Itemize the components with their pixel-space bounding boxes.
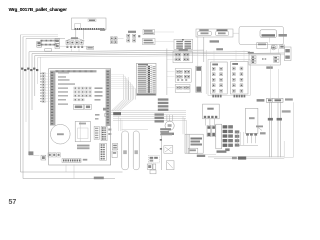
wire B1 link [155, 31, 175, 33]
relay K3 lower boxes [147, 164, 152, 169]
feed tick 2 [277, 118, 282, 121]
external connector column X3 [42, 73, 45, 75]
power module side text [260, 132, 266, 134]
label box X10 [37, 42, 42, 48]
ground link [284, 156, 293, 158]
wire label bl [28, 151, 33, 155]
heatsink block [75, 121, 90, 141]
contact cluster K?b [127, 34, 130, 37]
power module [245, 108, 258, 133]
ground text 2 [232, 157, 237, 160]
wire cap return [238, 144, 258, 146]
signal grid box [174, 39, 193, 49]
power supply terminal row [75, 28, 76, 30]
wire transistor feeds [166, 115, 168, 121]
internal connector box [94, 126, 99, 139]
wire tick labels [21, 68, 23, 70]
bottom text [77, 145, 90, 147]
drive label right [279, 34, 287, 37]
pin stub 2 [83, 30, 85, 40]
relay box K1 [211, 62, 228, 94]
wire through breaker [60, 45, 90, 47]
breaker stub down a [71, 49, 73, 53]
relay output cells col2 [235, 130, 240, 133]
breaker Q1 label [71, 37, 78, 39]
net label row 1 [40, 40, 59, 42]
wire B2 link [155, 41, 174, 43]
wire mid vertical [166, 49, 168, 96]
wire contactor drop b [277, 48, 279, 54]
control unit right pin column [106, 70, 111, 127]
harness small box [105, 113, 109, 116]
wire 24V bus corner a [21, 34, 59, 36]
wire marks between B1 B2 [138, 35, 140, 37]
wire drop v5 [31, 54, 33, 110]
power module side marks [256, 126, 263, 128]
wire label stack 2 [155, 113, 164, 115]
io cluster label [179, 49, 188, 51]
ground riser a [283, 141, 285, 157]
small device bl [41, 155, 46, 160]
filter box [185, 134, 203, 153]
wire left vertical 3 [25, 38, 27, 122]
relay K3 dashed box [148, 156, 159, 163]
power supply label [88, 19, 96, 22]
wire bar top link [122, 129, 149, 131]
coil component b [212, 126, 216, 137]
power supply A1 [72, 18, 107, 30]
feed pair 1 [268, 102, 270, 157]
wire harness verticals [123, 75, 125, 100]
breaker Q1 dome [66, 38, 85, 41]
panel button S1 [198, 31, 212, 36]
diode box b [166, 161, 174, 170]
wire drop v4 [28, 52, 30, 156]
bus wire L2 [32, 52, 250, 54]
interface stubs [204, 119, 206, 126]
io cluster box 2 marks [177, 79, 179, 81]
terminal strip footer [137, 93, 156, 95]
wire bundle corner drops [182, 116, 184, 134]
wire harness fan [112, 100, 124, 111]
terminal X1b [55, 44, 60, 49]
relay K3 bottom box [150, 170, 156, 174]
io stubs [167, 54, 175, 56]
junction box [266, 98, 283, 102]
control unit text rows [58, 72, 69, 74]
buzzer circle [51, 124, 71, 144]
terminal strip rows [138, 66, 146, 67]
edge label marks [108, 129, 111, 131]
resistor R1 bar [122, 131, 129, 170]
control unit jumper box a [74, 104, 84, 109]
device box B1 [143, 30, 155, 35]
wire grid feed [197, 35, 199, 67]
control unit pin column [50, 71, 55, 126]
pin stub 1 [75, 30, 77, 40]
contactor right pole stack [274, 56, 280, 59]
relay K1 contact rows [212, 67, 215, 70]
bottom connector strip [62, 159, 81, 163]
harness label [113, 112, 121, 115]
device box B2 [143, 39, 156, 45]
strip side label [83, 159, 88, 161]
harness stub marks [103, 108, 107, 111]
wire tick a [160, 139, 162, 141]
interface box [203, 104, 220, 119]
wire contactor drop a [269, 48, 271, 54]
component row bl [48, 153, 52, 157]
feed pair 2 [277, 102, 279, 157]
filter text block [191, 138, 203, 140]
resistor R2 bar [133, 131, 139, 170]
wire harness bundle [108, 110, 186, 112]
bus wire L4 [38, 55, 284, 57]
wire relay feed [205, 50, 207, 94]
contact pair wire [118, 37, 124, 39]
io cluster box 1 [173, 51, 192, 62]
wire label stack 1 [158, 98, 169, 100]
drive enclosure [239, 27, 284, 45]
wire K feeds [213, 51, 215, 63]
control unit text row low [58, 103, 68, 105]
capacitor C1 [246, 133, 249, 135]
filter sub box [188, 148, 198, 153]
panel button S2 [216, 31, 229, 36]
terminal strip header [138, 64, 148, 66]
label box a [112, 144, 117, 150]
junction label left [257, 99, 265, 102]
wire contactor feed a [269, 65, 271, 98]
operator panel enclosure [196, 29, 233, 37]
contactor caption [266, 66, 273, 68]
interface bottom cells [204, 116, 206, 118]
relay box K2 [231, 62, 249, 95]
relay output cells [223, 125, 228, 128]
relay K3 cells [150, 157, 154, 159]
motor M1 symbol [271, 45, 276, 50]
wire tick b [160, 148, 162, 150]
wire harness corner drops2 [118, 116, 120, 131]
relay K1 label [212, 64, 218, 66]
breaker Q1 lower marks [66, 46, 68, 48]
terminal block column [216, 124, 222, 149]
wire under interface [205, 154, 216, 156]
bus label mid [216, 48, 223, 50]
fuse block F1 [284, 47, 291, 61]
relay panel enclosure [208, 60, 250, 96]
junction label right [285, 98, 293, 100]
drive terminal b [280, 45, 285, 49]
ground bus [208, 156, 284, 158]
output caption 2 [225, 148, 229, 151]
coil component a [207, 126, 211, 137]
wire contactor feed b [277, 69, 279, 98]
drive terminal a [272, 45, 277, 49]
wire panel link [233, 32, 239, 34]
relay K2 label [232, 63, 238, 65]
wire box drop b [73, 164, 75, 178]
relay K2 contact rows [232, 67, 235, 70]
diode box a [164, 146, 173, 154]
net label top [100, 29, 105, 31]
control unit A2 enclosure [49, 69, 111, 165]
contactor box [249, 54, 280, 65]
net label row 2 [40, 44, 57, 46]
breaker Q1 contacts [66, 41, 69, 45]
filter stripes [185, 134, 187, 153]
wire drop v7 [37, 57, 39, 84]
control unit dip row short [58, 99, 66, 101]
relay K1 terminal row [212, 95, 214, 98]
capacitor C3 [254, 133, 257, 135]
relay K2 terminal row [234, 95, 236, 98]
connector column X4 upper [101, 126, 107, 140]
motor wires [268, 37, 270, 42]
wire 24V bus corner c [26, 37, 65, 39]
drive unit U3 [260, 30, 277, 38]
wire box drop a [65, 164, 67, 172]
contactor mid dots [262, 58, 264, 60]
motor M2 symbol [165, 121, 174, 130]
wire panel drop [203, 37, 205, 62]
connector column X4 lower [100, 143, 107, 160]
wire 24V bus corner b [23, 36, 58, 38]
capacitor C2 [250, 133, 253, 135]
feed tick 1 [268, 118, 273, 121]
wire drop v6 [34, 55, 36, 96]
narrow device U4 [196, 66, 202, 92]
small box under labels [45, 49, 52, 51]
bus wire L1 [29, 50, 204, 52]
ground riser b [292, 102, 294, 157]
wire hook v4 [29, 155, 40, 157]
contactor left pole stack [251, 56, 256, 58]
control unit title [55, 70, 97, 72]
label on bottom wire [94, 177, 104, 180]
bus wire L3 [35, 53, 284, 55]
contact box label [248, 52, 254, 54]
wire cap risers [237, 132, 239, 145]
wire strip left drop [127, 77, 129, 100]
contact cluster K?b label [128, 31, 136, 33]
ground bus label [238, 156, 246, 159]
wire drop v8 [39, 57, 41, 78]
wire left vertical 1 [20, 35, 22, 172]
contact pair K?a [111, 37, 114, 40]
PE label [282, 110, 291, 112]
terminal X1a [55, 39, 60, 44]
aux box right of breaker [87, 46, 94, 49]
control unit jumper box b [85, 104, 92, 109]
io cluster box 3 [175, 84, 190, 92]
panel caption [210, 40, 219, 42]
wire bottom horizontal run 2 [23, 178, 115, 180]
wire left vertical 2 [22, 37, 24, 179]
wire bottom horizontal run 1 [21, 171, 123, 173]
text rows above [160, 128, 171, 130]
wire mid-bottom vertical [160, 136, 162, 171]
power supply sub-module [75, 24, 81, 30]
drive sub box [257, 43, 268, 49]
terminal strip X2 [137, 63, 157, 95]
io cluster box 2 [175, 69, 191, 83]
output caption [217, 150, 227, 152]
interior marks upper [95, 114, 100, 116]
breaker stub down b [78, 49, 80, 53]
filter caption [197, 155, 205, 157]
control unit dip rows [58, 87, 68, 89]
label box b [112, 151, 117, 158]
motor M2 label [161, 133, 174, 135]
